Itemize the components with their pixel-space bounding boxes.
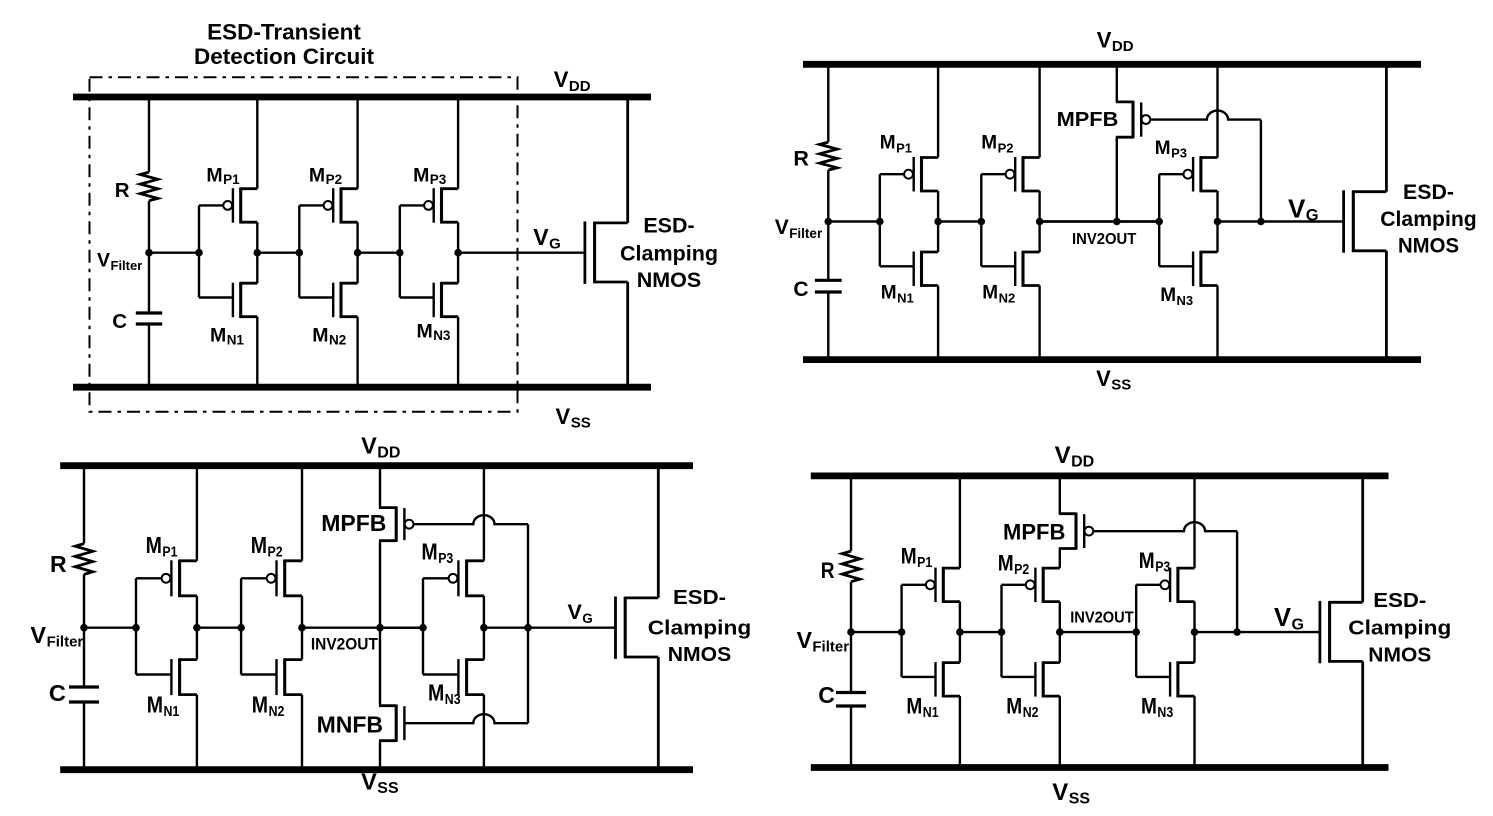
- wire: capacitor to VSS (circuit 4): [850, 706, 852, 768]
- svg-text:P1: P1: [896, 140, 912, 155]
- node: inverter 3 input: [396, 249, 404, 257]
- pmos MP1 (circuit 4): [902, 567, 960, 603]
- wire: VDD to MPFB source (circuit 4): [1059, 476, 1061, 514]
- svg-text:R: R: [115, 179, 130, 202]
- svg-text:P1: P1: [223, 172, 240, 187]
- svg-text:V: V: [533, 224, 549, 250]
- wire: MN2 source to VSS (circuit 2): [1038, 286, 1040, 360]
- svg-text:M: M: [309, 164, 325, 186]
- svg-text:V: V: [30, 622, 46, 648]
- pmos MPFB (circuit 3): [379, 506, 414, 542]
- svg-text:NMOS: NMOS: [668, 644, 732, 666]
- svg-text:P2: P2: [998, 140, 1014, 155]
- VSS rail: [73, 384, 651, 391]
- capacitor C (circuit 3): [69, 687, 99, 702]
- svg-text:INV2OUT: INV2OUT: [311, 635, 379, 654]
- label R: [115, 179, 130, 202]
- svg-text:V: V: [797, 627, 813, 653]
- input stub wire inverter 2 (circuit 3): [240, 578, 242, 674]
- svg-text:V: V: [1052, 779, 1068, 806]
- svg-text:Detection Circuit: Detection Circuit: [194, 44, 375, 69]
- svg-text:N3: N3: [445, 692, 461, 708]
- wire: inverter 3 output to V_G junction (circuit 3): [484, 627, 528, 629]
- svg-text:P2: P2: [326, 172, 343, 187]
- wire: inverter 1 input: [149, 251, 199, 253]
- wire: inverter 3 output vertical (circuit 3): [483, 596, 485, 660]
- nmos MN1 (circuit 2): [880, 251, 938, 287]
- svg-text:G: G: [1306, 207, 1319, 225]
- label MN3 (circuit 3): [428, 680, 461, 709]
- VSS rail (circuit 4): [811, 764, 1389, 771]
- svg-text:P1: P1: [162, 545, 177, 561]
- wire: inverter 2 output vertical: [356, 222, 358, 283]
- nmos MN2 (circuit 4): [1002, 661, 1060, 697]
- node: inverter 2 output (circuit 4): [1056, 628, 1064, 636]
- svg-text:V: V: [1288, 194, 1306, 224]
- label R (circuit 2): [793, 147, 809, 171]
- node: inverter 2 input (circuit 3): [237, 624, 245, 632]
- VSS rail (circuit 3): [60, 766, 693, 773]
- node: inverter 2 input: [296, 249, 304, 257]
- node: inverter 1 input (circuit 4): [898, 628, 906, 636]
- svg-text:M: M: [881, 283, 897, 304]
- nmos MN3 (circuit 2): [1159, 251, 1217, 287]
- label MN3: [417, 320, 451, 343]
- label V_Filter (circuit 4): [797, 627, 850, 656]
- svg-text:P1: P1: [917, 555, 932, 571]
- svg-text:C: C: [818, 682, 835, 708]
- node V_Filter (circuit 3): [80, 624, 88, 632]
- input stub wire inverter 2 (circuit 2): [980, 174, 982, 266]
- wire: V_Filter to capacitor (circuit 3): [83, 628, 85, 687]
- wire: inverter 1 output vertical (circuit 2): [937, 191, 939, 252]
- label MN1: [210, 325, 244, 348]
- wire: MPFB drain to INV2OUT (circuit 2): [1116, 137, 1118, 221]
- wire: V_G junction to clamp gate (circuit 4): [1237, 631, 1320, 633]
- label MP1: [206, 164, 240, 187]
- wire: VDD to resistor R (circuit 2): [827, 64, 829, 142]
- svg-text:G: G: [1292, 617, 1304, 634]
- label V_G (circuit 3): [568, 600, 593, 626]
- svg-text:INV2OUT: INV2OUT: [1072, 231, 1137, 248]
- svg-text:N2: N2: [999, 290, 1016, 305]
- svg-text:P2: P2: [1014, 562, 1029, 578]
- svg-text:Filter: Filter: [47, 634, 84, 651]
- svg-text:R: R: [793, 147, 809, 171]
- wire: inverter 1 output vertical: [256, 222, 258, 283]
- svg-text:N2: N2: [329, 333, 346, 348]
- svg-text:N1: N1: [923, 705, 939, 721]
- wire: inverter 3 input (circuit 4): [1060, 631, 1136, 633]
- svg-text:Filter: Filter: [812, 639, 849, 656]
- svg-text:DD: DD: [1112, 38, 1134, 55]
- wire: inverter 2 input (circuit 4): [960, 631, 1002, 633]
- svg-text:DD: DD: [1071, 454, 1094, 471]
- label MN1 (circuit 2): [881, 283, 914, 306]
- label V_G (circuit 4): [1274, 604, 1304, 634]
- input stub wire inverter 2: [298, 205, 300, 297]
- label R (circuit 3): [50, 551, 67, 577]
- wire: MP1 source to VDD (circuit 2): [937, 64, 939, 157]
- node: inverter 2 input (circuit 2): [978, 218, 986, 226]
- input stub wire inverter 3: [399, 205, 401, 297]
- wire: inverter 3 output vertical: [457, 222, 459, 283]
- wire: MP3 source to VDD (circuit 2): [1216, 64, 1218, 157]
- svg-text:N2: N2: [269, 704, 285, 720]
- svg-text:M: M: [206, 164, 222, 186]
- wire: VDD to MPFB source (circuit 3): [379, 466, 381, 508]
- svg-text:ESD-: ESD-: [1373, 590, 1426, 612]
- svg-text:M: M: [981, 133, 997, 154]
- VSS label: [556, 404, 591, 432]
- svg-text:SS: SS: [1111, 377, 1131, 394]
- wire: inverter 2 output vertical (circuit 3): [301, 596, 303, 660]
- input stub wire inverter 3 (circuit 3): [422, 578, 424, 674]
- svg-text:Clamping: Clamping: [1380, 208, 1477, 231]
- svg-text:SS: SS: [377, 780, 399, 797]
- VSS label (circuit 2): [1096, 366, 1131, 394]
- node: inverter 3 input (circuit 3): [419, 624, 427, 632]
- svg-text:Filter: Filter: [111, 258, 143, 273]
- label MP3 (circuit 4): [1139, 548, 1170, 576]
- wire: MN1 source to VSS (circuit 4): [959, 696, 961, 767]
- svg-text:Clamping: Clamping: [1348, 618, 1451, 640]
- node: inverter 2 output (circuit 3): [298, 624, 306, 632]
- svg-text:M: M: [906, 694, 922, 719]
- wire: inverter 1 input (circuit 2): [828, 220, 880, 222]
- resistor R (circuit 3): [75, 544, 93, 575]
- capacitor C (circuit 2): [815, 280, 842, 292]
- wire: inverter 2 input (circuit 3): [197, 627, 241, 629]
- svg-text:MPFB: MPFB: [321, 510, 386, 536]
- wire: MP1 source to VDD: [256, 97, 258, 189]
- svg-text:M: M: [1006, 694, 1022, 719]
- svg-text:DD: DD: [569, 78, 591, 95]
- label ESD-Clamping NMOS (circuit 4): [1348, 590, 1451, 667]
- svg-text:SS: SS: [571, 415, 591, 432]
- label MN2: [312, 325, 346, 348]
- node V_Filter (circuit 2): [825, 218, 833, 226]
- svg-text:M: M: [880, 133, 896, 154]
- wire: MP3 source to VDD: [457, 97, 459, 189]
- svg-text:V: V: [361, 769, 377, 795]
- label MP3 (circuit 2): [1155, 138, 1187, 161]
- svg-text:G: G: [582, 611, 593, 626]
- svg-text:N1: N1: [897, 290, 914, 305]
- node: V_G junction (circuit 3): [524, 624, 532, 632]
- pmos MP1 (circuit 3): [136, 560, 197, 597]
- wire: V_Filter to capacitor (circuit 2): [827, 222, 829, 281]
- node: V_G junction (circuit 4): [1233, 628, 1241, 636]
- svg-text:M: M: [982, 283, 998, 304]
- wire: inverter 2 output vertical (circuit 2): [1038, 191, 1040, 252]
- node: V_G junction (circuit 2): [1257, 218, 1265, 226]
- wire: MN1 source to VSS: [256, 317, 258, 388]
- svg-text:V: V: [1274, 604, 1291, 632]
- wire: MPFB drain to MP2 source (circuit 4): [1059, 549, 1061, 569]
- svg-text:N1: N1: [164, 704, 180, 720]
- VDD rail: [73, 94, 651, 101]
- svg-text:M: M: [1155, 138, 1171, 159]
- wire: MP1 source to VDD (circuit 4): [959, 476, 961, 568]
- node: inverter 3 output (circuit 3): [480, 624, 488, 632]
- wire: feedback gate vertical (circuit 3): [527, 524, 529, 723]
- wire: resistor to V_Filter node: [148, 201, 150, 253]
- svg-text:M: M: [1139, 548, 1155, 573]
- node: inverter 3 output (circuit 2): [1214, 218, 1222, 226]
- svg-text:P3: P3: [1155, 560, 1170, 576]
- capacitor C: [136, 313, 162, 324]
- svg-text:V: V: [1097, 28, 1112, 53]
- svg-text:V: V: [556, 404, 571, 429]
- wire: resistor to V_Filter (circuit 3): [83, 574, 85, 627]
- svg-text:N1: N1: [227, 333, 245, 348]
- svg-text:MNFB: MNFB: [317, 712, 383, 738]
- resistor R: [140, 172, 158, 201]
- label MPFB (circuit 2): [1057, 109, 1119, 131]
- input stub wire inverter 1 (circuit 4): [900, 585, 902, 677]
- label INV2OUT (circuit 3): [311, 635, 379, 654]
- ESD-clamping NMOS: [585, 97, 628, 387]
- label MP1 (circuit 3): [146, 532, 178, 561]
- nmos MN2 (circuit 3): [241, 658, 302, 695]
- nmos MN3 (circuit 3): [423, 658, 484, 695]
- ESD-clamping NMOS (circuit 3): [616, 466, 659, 770]
- svg-text:G: G: [549, 236, 561, 253]
- resistor R (circuit 4): [842, 551, 860, 582]
- svg-text:N3: N3: [1157, 705, 1173, 721]
- svg-text:M: M: [998, 551, 1014, 576]
- label MN3 (circuit 4): [1141, 694, 1173, 722]
- wire: inverter 3 input (circuit 3): [380, 627, 423, 629]
- label ESD-Clamping NMOS: [620, 213, 718, 292]
- wire: capacitor to VSS (circuit 2): [827, 292, 829, 360]
- svg-text:MPFB: MPFB: [1003, 519, 1065, 544]
- wire: MN1 source to VSS (circuit 2): [937, 286, 939, 360]
- wire: inverter 2 output to next: [358, 251, 400, 253]
- input stub wire inverter 3 (circuit 4): [1135, 585, 1137, 677]
- input stub wire inverter 1 (circuit 3): [135, 578, 137, 674]
- node: inverter 1 output (circuit 2): [934, 218, 942, 226]
- ESD-clamping NMOS (circuit 4): [1320, 476, 1363, 768]
- node: inverter 3 output: [454, 249, 462, 257]
- svg-text:NMOS: NMOS: [637, 268, 702, 292]
- label ESD-Clamping NMOS (circuit 2): [1380, 181, 1477, 258]
- pmos MPFB (circuit 2): [1116, 101, 1151, 139]
- label C (circuit 2): [793, 278, 808, 301]
- wire: inverter 2 output vertical (circuit 4): [1059, 602, 1061, 663]
- svg-text:M: M: [312, 325, 328, 347]
- node INV2OUT (circuit 3): [376, 624, 384, 632]
- svg-text:ESD-: ESD-: [1403, 181, 1454, 204]
- node: inverter 1 input: [195, 249, 203, 257]
- svg-text:P3: P3: [438, 551, 453, 567]
- nmos MN1: [199, 282, 257, 318]
- pmos MP3 (circuit 4): [1136, 567, 1194, 603]
- label MPFB (circuit 3): [321, 510, 386, 536]
- wire: capacitor to VSS: [148, 324, 150, 387]
- wire: MN2 source to VSS (circuit 3): [301, 695, 303, 770]
- label MP2 (circuit 3): [251, 532, 283, 561]
- svg-text:V: V: [775, 216, 789, 239]
- title: ESD-Transient Detection Circuit: [194, 20, 375, 70]
- wire: MN3 source to VSS: [457, 317, 459, 388]
- svg-text:Clamping: Clamping: [620, 241, 718, 265]
- wire: MNFB gate to feedback junction with hop (circuit 3): [404, 714, 528, 723]
- label MP1 (circuit 4): [901, 544, 932, 572]
- capacitor C (circuit 4): [836, 693, 866, 707]
- wire: capacitor to VSS (circuit 3): [83, 702, 85, 770]
- wire: MN3 source to VSS (circuit 3): [483, 695, 485, 770]
- svg-text:V: V: [361, 433, 377, 459]
- svg-text:V: V: [554, 67, 569, 92]
- label MN2 (circuit 2): [982, 283, 1015, 306]
- input stub wire inverter 3 (circuit 2): [1158, 174, 1160, 266]
- svg-text:M: M: [1160, 285, 1176, 306]
- label V_G (circuit 2): [1288, 194, 1319, 225]
- node: inverter 3 input (circuit 2): [1155, 218, 1163, 226]
- svg-text:MPFB: MPFB: [1057, 109, 1119, 131]
- label V_Filter: [97, 250, 142, 274]
- label C (circuit 3): [49, 680, 66, 706]
- wire: inverter 2 input: [298, 251, 300, 253]
- node: inverter 1 output (circuit 4): [956, 628, 964, 636]
- VSS label (circuit 4): [1052, 779, 1090, 808]
- svg-text:M: M: [413, 164, 429, 186]
- label ESD-Clamping NMOS (circuit 3): [648, 587, 752, 666]
- wire: inverter 1 input (circuit 4): [851, 631, 902, 633]
- pmos MP1: [199, 188, 257, 224]
- wire: inverter 1 output vertical (circuit 3): [196, 596, 198, 660]
- nmos MNFB (circuit 3): [379, 705, 404, 742]
- input stub wire inverter 1 (circuit 2): [879, 174, 881, 266]
- svg-text:M: M: [428, 680, 444, 706]
- label C (circuit 4): [818, 682, 835, 708]
- label V_G: [533, 224, 560, 253]
- svg-text:M: M: [210, 325, 226, 347]
- svg-text:SS: SS: [1069, 791, 1091, 808]
- label MP1 (circuit 2): [880, 133, 912, 156]
- wire: inverter 2 output to INV2OUT (circuit 3): [302, 627, 423, 629]
- svg-text:ESD-Transient: ESD-Transient: [207, 20, 361, 45]
- node V_Filter: [145, 249, 153, 257]
- node: inverter 2 input (circuit 4): [998, 628, 1006, 636]
- wire: V_Filter to capacitor (circuit 4): [850, 632, 852, 692]
- nmos MN3: [400, 282, 458, 318]
- VDD label (circuit 4): [1055, 442, 1095, 471]
- wire: VDD to resistor R: [148, 97, 150, 172]
- pmos MP2 (circuit 2): [981, 156, 1039, 192]
- label R (circuit 4): [821, 558, 835, 583]
- svg-text:R: R: [50, 551, 67, 577]
- wire: MP3 source to VDD (circuit 3): [483, 466, 485, 561]
- wire: resistor to V_Filter (circuit 4): [850, 582, 852, 632]
- node: inverter 1 input (circuit 3): [132, 624, 140, 632]
- wire: INV2OUT to MNFB drain (circuit 3): [379, 628, 381, 706]
- dash-dot boundary box of detection circuit: [90, 77, 518, 412]
- nmos MN2: [299, 282, 357, 318]
- wire: inverter 2 output to INV2OUT node (circuit 2): [1040, 220, 1160, 222]
- input stub wire inverter 1: [198, 205, 200, 297]
- pmos MP2 (circuit 3): [241, 560, 302, 597]
- pmos MP2 (circuit 4): [1002, 567, 1060, 603]
- wire: MPFB drain to INV2OUT (circuit 3): [379, 541, 381, 628]
- svg-text:INV2OUT: INV2OUT: [1070, 609, 1134, 626]
- wire: MN2 source to VSS: [356, 317, 358, 388]
- pmos MP2: [299, 188, 357, 224]
- node: inverter 1 input (circuit 2): [876, 218, 884, 226]
- nmos MN2 (circuit 2): [981, 251, 1039, 287]
- svg-text:M: M: [146, 532, 162, 558]
- input stub wire inverter 2 (circuit 4): [1000, 585, 1002, 677]
- svg-text:N2: N2: [1023, 705, 1039, 721]
- wire: MPFB gate to feedback junction with hop (circuit 3): [414, 515, 529, 524]
- wire: MP3 source to VDD (circuit 4): [1193, 476, 1195, 568]
- svg-text:ESD-: ESD-: [643, 213, 694, 237]
- wire: inverter 3 output vertical (circuit 2): [1216, 191, 1218, 252]
- label MN2 (circuit 4): [1006, 694, 1038, 722]
- svg-text:M: M: [901, 544, 917, 569]
- svg-text:N3: N3: [1177, 293, 1194, 308]
- svg-text:C: C: [793, 278, 808, 301]
- wire: MP2 source to VDD (circuit 3): [301, 466, 303, 561]
- ESD-clamping NMOS (circuit 2): [1344, 64, 1387, 359]
- node: inverter 3 output (circuit 4): [1191, 628, 1199, 636]
- VDD label (circuit 3): [361, 433, 400, 462]
- svg-text:NMOS: NMOS: [1368, 645, 1431, 667]
- VDD rail (circuit 3): [60, 462, 693, 469]
- svg-text:M: M: [251, 532, 267, 558]
- node: inverter 3 input (circuit 4): [1132, 628, 1140, 636]
- VSS rail (circuit 2): [803, 356, 1421, 363]
- label MN3 (circuit 2): [1160, 285, 1193, 308]
- svg-text:NMOS: NMOS: [1398, 235, 1459, 258]
- wire: resistor to V_Filter (circuit 2): [827, 170, 829, 221]
- wire: inverter 3 output to V_G junction (circuit 4): [1195, 631, 1238, 633]
- svg-text:DD: DD: [377, 444, 400, 461]
- svg-text:V: V: [568, 600, 583, 624]
- label MPFB (circuit 4): [1003, 519, 1065, 544]
- node: inverter 1 output: [253, 249, 261, 257]
- wire: inverter 2 input (circuit 2): [938, 220, 981, 222]
- node V_Filter (circuit 4): [847, 628, 855, 636]
- svg-text:P2: P2: [268, 545, 283, 561]
- wire: MP2 source to VDD: [356, 97, 358, 189]
- VDD label: [554, 67, 591, 95]
- wire: inverter 1 output vertical (circuit 4): [959, 602, 961, 663]
- label MN1 (circuit 4): [906, 694, 938, 722]
- wire: VDD to MPFB source (circuit 2): [1116, 64, 1118, 102]
- svg-text:C: C: [49, 680, 66, 706]
- VDD rail (circuit 2): [803, 61, 1421, 68]
- svg-text:Filter: Filter: [789, 226, 823, 241]
- wire: V_Filter node to capacitor C: [148, 253, 150, 313]
- label MP2 (circuit 4): [998, 551, 1029, 579]
- resistor R (circuit 2): [820, 142, 838, 170]
- wire: VDD to resistor R (circuit 4): [850, 476, 852, 551]
- pmos MP1 (circuit 2): [880, 156, 938, 192]
- wire: inverter 1 output to next: [257, 251, 299, 253]
- label MP3 (circuit 3): [421, 539, 453, 568]
- svg-text:V: V: [1055, 442, 1071, 469]
- label MN2 (circuit 3): [252, 691, 285, 720]
- label C: [112, 310, 127, 333]
- node INV2OUT (circuit 2): [1113, 218, 1121, 226]
- wire: inverter 1 input (circuit 3): [84, 627, 136, 629]
- svg-text:R: R: [821, 558, 835, 583]
- wire: MN2 source to VSS (circuit 4): [1059, 696, 1061, 767]
- label MNFB (circuit 3): [317, 712, 383, 738]
